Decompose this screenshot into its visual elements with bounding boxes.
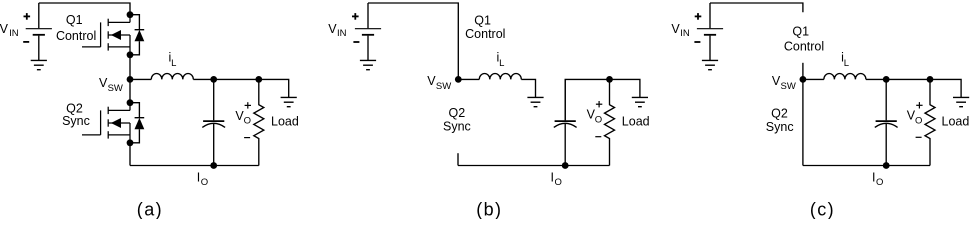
label VO (a) xyxy=(235,109,251,127)
body diode of Q1 (a) xyxy=(130,15,144,55)
capacitor C output (c) xyxy=(875,79,898,165)
label Sync (b) xyxy=(443,120,471,134)
node capacitor bottom junction dot (a) xyxy=(210,162,217,169)
label VIN (a) xyxy=(0,22,19,39)
svg-text:Control: Control xyxy=(465,27,505,41)
ground after inductor (b) xyxy=(527,97,543,106)
node Q2 source junction dot (a) xyxy=(127,139,134,146)
caption (a) xyxy=(137,200,163,220)
body diode of Q2 (a) xyxy=(130,103,144,143)
plus sign of VO (a) xyxy=(245,102,251,108)
label IO output current (c) xyxy=(872,170,883,188)
label Q2 (c) xyxy=(771,106,788,120)
minus terminal of VIN (c) xyxy=(694,41,700,43)
svg-text:Sync: Sync xyxy=(62,114,90,128)
svg-text:Q2: Q2 xyxy=(449,106,466,120)
svg-text:(a): (a) xyxy=(137,200,163,219)
node capacitor bottom junction dot (c) xyxy=(883,162,890,169)
svg-text:Load: Load xyxy=(942,114,970,128)
wire VSW to inductor (c) xyxy=(803,78,824,80)
label iL inductor current (b) xyxy=(497,51,505,70)
capacitor C output (a) xyxy=(202,79,225,165)
svg-text:Load: Load xyxy=(622,114,650,128)
svg-text:Q1: Q1 xyxy=(66,13,83,27)
plus terminal of VIN (c) xyxy=(695,13,702,20)
ground below battery (b) xyxy=(360,60,376,69)
minus sign of VO (b) xyxy=(595,136,601,138)
label IO output current (b) xyxy=(551,170,562,188)
svg-text:L: L xyxy=(844,58,849,69)
svg-text:Q2: Q2 xyxy=(771,106,788,120)
caption (c) xyxy=(810,200,835,220)
node VSW junction dot (a) xyxy=(127,76,134,83)
resistor Load (b) xyxy=(605,79,615,165)
wire bottom rail (a) xyxy=(130,165,259,167)
node VSW junction dot (c) xyxy=(800,76,807,83)
node Q2 drain junction dot (a) xyxy=(127,99,134,106)
label VSW (a) xyxy=(99,76,123,94)
node VSW junction dot (b) xyxy=(455,76,462,83)
svg-text:O: O xyxy=(876,177,883,188)
ground output right (a) xyxy=(281,97,297,106)
wire top rail with open Q1 stub (c) xyxy=(710,3,803,12)
label Q2 (a) xyxy=(66,101,83,115)
svg-text:V: V xyxy=(328,22,337,36)
svg-text:Load: Load xyxy=(271,114,299,128)
node load top junction dot (c) xyxy=(927,76,934,83)
wire output node to load node (c) xyxy=(886,78,930,80)
transistor Q1 MOSFET (a) xyxy=(82,15,130,55)
wire VSW to inductor (b) xyxy=(458,78,479,80)
wire VSW to Q2 drain (a) xyxy=(129,79,131,102)
wire top rail from VIN to Q1 drain (a) xyxy=(39,3,130,15)
svg-text:SW: SW xyxy=(781,81,796,92)
svg-text:I: I xyxy=(551,170,554,184)
svg-text:O: O xyxy=(915,116,922,127)
svg-text:L: L xyxy=(499,58,504,69)
inductor L (b) xyxy=(479,74,521,80)
label VSW (c) xyxy=(772,74,796,92)
wire bottom rail (c) xyxy=(803,165,930,167)
node capacitor bottom junction dot (b) xyxy=(562,162,569,169)
wire output node to load node (a) xyxy=(214,78,259,80)
svg-text:Q1: Q1 xyxy=(792,25,809,39)
label VIN (c) xyxy=(671,22,689,39)
svg-text:I: I xyxy=(197,170,200,184)
transistor Q2 MOSFET (a) xyxy=(82,103,130,143)
wire load node to output ground (a) xyxy=(259,79,289,97)
wire Q1 source to VSW node (a) xyxy=(129,55,131,80)
node load top junction dot (a) xyxy=(255,76,262,83)
wire Q2 source down to bottom rail (a) xyxy=(129,143,131,166)
minus terminal of VIN (b) xyxy=(353,41,359,43)
svg-text:O: O xyxy=(201,177,208,188)
inductor L (c) xyxy=(824,74,866,80)
plus terminal of VIN (a) xyxy=(24,13,31,20)
node Q1 source junction dot (a) xyxy=(127,51,134,58)
label VO (b) xyxy=(587,108,603,126)
voltage source VIN battery (b) xyxy=(355,3,381,60)
wire bottom rail (b) xyxy=(458,165,610,167)
capacitor C output (b) xyxy=(554,79,577,165)
plus terminal of VIN (b) xyxy=(352,13,359,20)
svg-text:Sync: Sync xyxy=(443,120,471,134)
node capacitor top junction dot (c) xyxy=(883,76,890,83)
wire VSW to inductor (a) xyxy=(130,78,151,80)
wire open Q1 stub above VSW (c) xyxy=(802,63,804,80)
label Load (c) xyxy=(942,114,970,128)
svg-text:IN: IN xyxy=(9,28,19,39)
label Sync (c) xyxy=(766,120,794,134)
wire open Q2 stub at bottom rail left (b) xyxy=(457,153,459,165)
voltage source VIN battery (c) xyxy=(697,3,723,60)
svg-text:V: V xyxy=(0,22,9,36)
node load top junction dot (b) xyxy=(606,76,613,83)
wire inductor to output node (a) xyxy=(193,78,213,80)
label Sync (a) xyxy=(62,114,90,128)
wire output network top rail (b) xyxy=(565,79,609,120)
ground below battery (a) xyxy=(31,60,47,69)
svg-text:(c): (c) xyxy=(810,200,835,219)
label Load (b) xyxy=(622,114,650,128)
svg-text:IN: IN xyxy=(337,28,347,39)
label Q2 (b) xyxy=(449,106,466,120)
wire load node to output ground (b) xyxy=(610,79,640,97)
svg-text:Sync: Sync xyxy=(766,120,794,134)
svg-text:(b): (b) xyxy=(476,200,502,219)
voltage source VIN battery (a) xyxy=(26,3,52,60)
ground output right (c) xyxy=(953,97,969,106)
svg-text:Q1: Q1 xyxy=(474,14,491,28)
node Q1 drain junction dot (a) xyxy=(127,11,134,18)
svg-text:O: O xyxy=(595,115,602,126)
inductor L (a) xyxy=(151,74,193,80)
label iL inductor current (c) xyxy=(841,51,849,70)
resistor Load (a) xyxy=(254,79,264,165)
svg-text:IN: IN xyxy=(680,28,690,39)
plus sign of VO (c) xyxy=(916,102,922,108)
minus sign of VO (c) xyxy=(916,136,922,138)
svg-text:O: O xyxy=(244,116,251,127)
label Q1 (a) xyxy=(66,13,83,27)
label VIN (b) xyxy=(328,22,346,39)
label Q1 (b) xyxy=(474,14,491,28)
label IO output current (a) xyxy=(197,170,208,188)
wire top rail and Q1 closed switch path to VSW (b) xyxy=(368,3,458,79)
plus sign of VO (b) xyxy=(596,101,602,107)
svg-text:O: O xyxy=(555,177,562,188)
ground below battery (c) xyxy=(702,60,718,69)
svg-text:V: V xyxy=(671,22,680,36)
minus sign of VO (a) xyxy=(244,137,250,139)
minus terminal of VIN (a) xyxy=(23,41,29,43)
svg-text:Control: Control xyxy=(56,29,96,43)
label Load (a) xyxy=(271,114,299,128)
ground output right (b) xyxy=(632,97,648,106)
svg-text:SW: SW xyxy=(108,83,123,94)
svg-text:L: L xyxy=(171,58,176,69)
svg-text:Control: Control xyxy=(784,40,824,54)
wire load node to output ground (c) xyxy=(930,79,961,97)
label Q1 (c) xyxy=(792,25,809,39)
wire Q2 closed switch path VSW to bottom rail (c) xyxy=(802,79,804,165)
node capacitor top junction dot (a) xyxy=(210,76,217,83)
label Control (a) xyxy=(56,29,96,43)
caption (b) xyxy=(476,200,502,220)
svg-text:I: I xyxy=(872,170,875,184)
label iL inductor current (a) xyxy=(169,51,177,70)
wire inductor to output node (c) xyxy=(866,78,886,80)
label Control (b) xyxy=(465,27,505,41)
label Control (c) xyxy=(784,40,824,54)
wire inductor to mid ground (b) xyxy=(521,79,535,97)
svg-text:SW: SW xyxy=(436,81,451,92)
resistor Load (c) xyxy=(925,79,935,165)
label VSW (b) xyxy=(427,74,451,92)
label VO (c) xyxy=(907,109,923,127)
